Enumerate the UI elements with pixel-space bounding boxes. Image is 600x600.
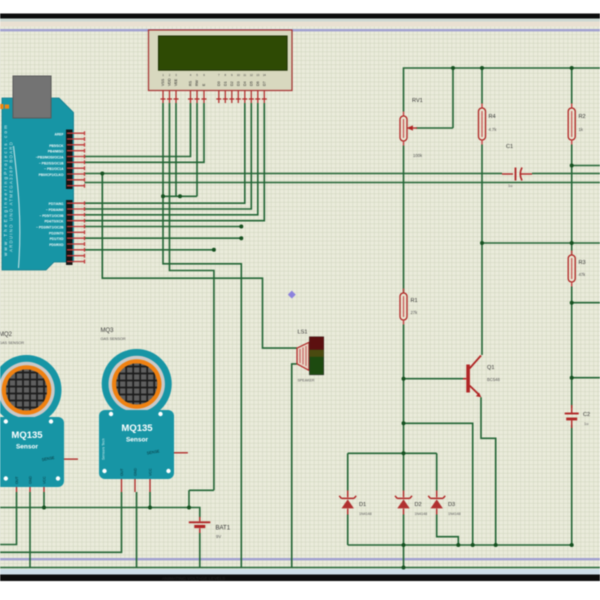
- node y196 b: [178, 194, 182, 198]
- svg-text:D5: D5: [249, 81, 253, 86]
- wire MQ3 VCC: [149, 492, 151, 508]
- svg-text:11: 11: [243, 73, 246, 77]
- svg-text:47k: 47k: [579, 272, 587, 277]
- wire D2 node to bottom rail: [403, 545, 405, 568]
- node R2 stub: [570, 164, 574, 168]
- svg-text:9V: 9V: [216, 534, 221, 539]
- node pd3: [239, 225, 243, 229]
- svg-text:PB4/MISO: PB4/MISO: [48, 150, 64, 154]
- wire VSS trunk: [163, 103, 241, 568]
- node rail RV1: [451, 66, 455, 70]
- node battery rail: [187, 506, 191, 510]
- svg-text:~ PD5/T1/OC0B: ~ PD5/T1/OC0B: [39, 214, 64, 218]
- svg-text:PD4/T0/XCK: PD4/T0/XCK: [44, 220, 64, 224]
- svg-text:Q1: Q1: [487, 365, 494, 371]
- node D2 bottom: [402, 543, 406, 547]
- speaker LS1: [297, 330, 324, 383]
- top black bar: [0, 14, 600, 19]
- node pd1: [212, 248, 216, 252]
- LCD pin numbers: [162, 73, 266, 77]
- svg-text:~PB3/MOSI/OC2A: ~PB3/MOSI/OC2A: [36, 156, 64, 160]
- svg-text:www.TheEngineeringProjects.com: www.TheEngineeringProjects.com: [3, 123, 8, 256]
- node vcc right: [148, 506, 152, 510]
- svg-text:MQ135: MQ135: [121, 423, 153, 434]
- svg-text:VDD: VDD: [168, 78, 172, 86]
- svg-text:D2: D2: [230, 81, 234, 86]
- wire R3 bottom trunk to C2: [571, 287, 573, 409]
- svg-text:GND: GND: [134, 468, 138, 476]
- svg-text:RV1: RV1: [412, 98, 423, 104]
- origin marker diamond: [288, 291, 296, 299]
- svg-text:GND: GND: [29, 476, 33, 484]
- svg-text:R2: R2: [579, 114, 586, 120]
- header pins bottom: [67, 201, 85, 263]
- wire RV1 wiper to rail: [452, 68, 454, 128]
- svg-text:1u: 1u: [508, 183, 512, 188]
- usb connector: [13, 76, 51, 118]
- svg-text:~ PB1/OC1A: ~ PB1/OC1A: [44, 167, 64, 171]
- wire R1 bottom to D2: [403, 325, 405, 491]
- wire R2 bottom trunk: [571, 145, 573, 256]
- wire VEE column: [175, 103, 177, 196]
- wire LCD RS: [85, 103, 191, 157]
- node branch: [402, 421, 406, 425]
- svg-text:VCC: VCC: [149, 468, 153, 476]
- svg-text:Sensors Tech: Sensors Tech: [102, 438, 106, 460]
- node rail emitter: [494, 543, 498, 547]
- wire C2 bottom: [571, 425, 573, 545]
- wire LCD D4: [85, 103, 245, 203]
- header pins top: [67, 131, 85, 188]
- svg-text:PD1/TXD: PD1/TXD: [50, 237, 65, 241]
- svg-text:D1: D1: [359, 502, 366, 508]
- svg-text:AREF: AREF: [55, 132, 64, 136]
- wire PD2: [85, 237, 242, 239]
- wire D3 bottom jog: [437, 515, 459, 546]
- node y196 a: [161, 194, 165, 198]
- diode D3: [428, 491, 460, 517]
- node base: [402, 377, 406, 381]
- wire trunk jog: [189, 490, 214, 507]
- svg-text:14: 14: [263, 73, 267, 77]
- svg-text:PB0/ICP1/CLKO: PB0/ICP1/CLKO: [39, 173, 64, 177]
- node C2 rail: [570, 543, 574, 547]
- pin header block bottom: [66, 200, 73, 265]
- svg-text:D1: D1: [223, 81, 227, 86]
- resistor R3: [568, 251, 586, 287]
- svg-text:D3: D3: [236, 81, 240, 86]
- wire long line 2: [85, 182, 600, 184]
- svg-text:C1: C1: [506, 144, 513, 150]
- svg-text:GAS SENSOR: GAS SENSOR: [0, 341, 24, 345]
- node rail R2: [570, 66, 574, 70]
- svg-text:MQ135: MQ135: [11, 430, 43, 441]
- svg-text:VSS: VSS: [161, 78, 165, 86]
- svg-text:D3: D3: [448, 502, 455, 508]
- wire LCD E: [85, 103, 205, 162]
- bottom black bar: [0, 575, 600, 582]
- node rail R4: [480, 66, 484, 70]
- node C2 top: [570, 376, 574, 380]
- bottom light band: [0, 569, 600, 575]
- wire D3 top: [436, 453, 438, 490]
- svg-text:100k: 100k: [413, 153, 423, 158]
- svg-text:10: 10: [237, 73, 241, 77]
- svg-text:1u: 1u: [584, 421, 588, 426]
- svg-text:PD2/INT0: PD2/INT0: [49, 231, 64, 235]
- svg-text:R1: R1: [411, 298, 418, 304]
- svg-text:~ PD6/AIN0: ~ PD6/AIN0: [46, 208, 64, 212]
- node R2R3: [570, 241, 574, 245]
- svg-text:SPEAKER: SPEAKER: [298, 379, 315, 383]
- wire right stub D: [572, 377, 600, 379]
- wire R4 top: [481, 68, 483, 104]
- wire VDD trunk: [170, 103, 214, 490]
- svg-text:D0: D0: [217, 81, 221, 86]
- gas sensor MQ2: [0, 332, 78, 492]
- wire MQ2 OUT: [0, 492, 17, 545]
- svg-text:OUT: OUT: [15, 476, 19, 484]
- svg-text:RW: RW: [195, 79, 199, 86]
- wire D1 bottom: [347, 515, 349, 546]
- svg-text:RS: RS: [189, 80, 193, 86]
- svg-text:1N4148: 1N4148: [448, 512, 461, 516]
- svg-text:~ PD3/INT1/OC2B: ~ PD3/INT1/OC2B: [36, 226, 64, 230]
- wire sensor rail: [0, 508, 200, 518]
- svg-text:ARDUINO UNO ATMEGA328P BOARD: ARDUINO UNO ATMEGA328P BOARD: [9, 141, 14, 252]
- wire Q1 emitter down: [481, 397, 496, 545]
- svg-text:PD0/RXD: PD0/RXD: [49, 243, 64, 247]
- wire battery bottom: [199, 533, 201, 568]
- svg-text:D2: D2: [415, 502, 422, 508]
- wire D2 bottom: [403, 515, 405, 546]
- board white curve: [14, 146, 20, 268]
- wire PD3: [85, 226, 242, 228]
- wire collector node horizontal: [482, 242, 600, 244]
- svg-text:VEE: VEE: [174, 78, 178, 86]
- wire LCD D7: [85, 103, 265, 221]
- node R3 bottom: [570, 301, 574, 305]
- wire right stub C: [572, 302, 600, 304]
- svg-text:13: 13: [256, 73, 260, 77]
- wire LCD D6: [85, 103, 258, 215]
- svg-text:R3: R3: [579, 260, 586, 266]
- svg-text:Sensor: Sensor: [16, 444, 39, 451]
- svg-text:27k: 27k: [411, 310, 419, 315]
- wire RW column: [196, 103, 198, 196]
- wire MQ3 OUT: [0, 492, 122, 552]
- svg-text:~ PB2/SS/OC1B: ~ PB2/SS/OC1B: [39, 161, 64, 165]
- wire node y196: [163, 195, 197, 197]
- LCD pins: [161, 91, 267, 104]
- svg-text:MQ2: MQ2: [0, 332, 13, 338]
- svg-text:BC548: BC548: [487, 377, 500, 382]
- svg-text:1N4148: 1N4148: [359, 512, 372, 516]
- wire diode top rail: [348, 452, 437, 454]
- resistor R1: [400, 289, 418, 325]
- sheet border line bottom: [0, 558, 600, 560]
- wire RV1 bottom to R1: [403, 146, 405, 294]
- LCD LM016L body: [149, 30, 293, 91]
- node rail D3: [456, 543, 460, 547]
- pin header block top: [66, 130, 73, 190]
- top tint bands: [0, 19, 600, 22]
- transistor Q1: [463, 356, 500, 398]
- wire MQ3 GND: [136, 492, 138, 568]
- wire branch to rail: [404, 423, 473, 545]
- svg-text:Sensor: Sensor: [126, 437, 149, 444]
- wire PD1: [85, 249, 214, 251]
- gas sensor MQ3: [99, 328, 188, 492]
- svg-text:LS1: LS1: [298, 330, 308, 336]
- svg-text:PB5/SCK: PB5/SCK: [49, 144, 64, 148]
- LCD pin labels: [161, 78, 266, 86]
- node rail branch: [471, 543, 475, 547]
- resistor R4: [479, 104, 498, 145]
- wire speaker feed: [102, 174, 297, 349]
- wire top power rail: [404, 68, 600, 112]
- capacitor C1: [502, 144, 532, 188]
- svg-text:4.7k: 4.7k: [489, 127, 498, 132]
- node bottom rail: [402, 566, 406, 570]
- orange led marks: [0, 104, 4, 109]
- wire bottom ground rail: [0, 567, 600, 569]
- wire Q1 base: [404, 378, 464, 380]
- Arduino board U1: [0, 76, 85, 270]
- node vcc left: [42, 506, 46, 510]
- svg-text:D4: D4: [243, 81, 247, 86]
- wire D1 top: [347, 453, 349, 490]
- svg-text:C2: C2: [583, 412, 590, 418]
- diode D1: [339, 491, 371, 517]
- svg-text:1N4148: 1N4148: [415, 512, 428, 516]
- svg-text:R4: R4: [489, 114, 496, 120]
- svg-text:OUT: OUT: [120, 468, 124, 476]
- wire R4 bottom to Q1 collector: [481, 145, 483, 356]
- svg-text:PD7/AIN1: PD7/AIN1: [49, 202, 64, 206]
- svg-text:GAS SENSOR: GAS SENSOR: [101, 337, 126, 341]
- wire LCD D5: [85, 103, 252, 209]
- svg-text:D7: D7: [262, 81, 266, 86]
- wire right stub A: [572, 165, 600, 167]
- wire R2 top: [571, 68, 573, 104]
- svg-text:VCC: VCC: [43, 476, 47, 484]
- pin labels: [36, 132, 64, 247]
- wire MQ2 GND: [29, 492, 31, 568]
- capacitor C2: [565, 405, 590, 428]
- svg-text:MQ3: MQ3: [101, 328, 115, 334]
- wire long line C1 right: [532, 173, 600, 175]
- battery BAT1: [189, 517, 231, 539]
- node speaker tap: [100, 172, 104, 176]
- potentiometer RV1: [400, 98, 453, 158]
- node D2 top: [402, 451, 406, 455]
- wire speaker return: [292, 364, 297, 568]
- resistor R2: [568, 104, 585, 145]
- svg-text:BAT1: BAT1: [216, 526, 231, 532]
- svg-text:D6: D6: [256, 81, 260, 86]
- sheet border line top: [0, 29, 600, 31]
- svg-text:ANIMATING VOLTAGE LEVELS .: ANIMATING VOLTAGE LEVELS . . .: [162, 576, 233, 581]
- node pd2: [239, 236, 243, 240]
- wire diode bottom rail: [348, 544, 572, 546]
- wire long line D13: [85, 173, 503, 175]
- svg-text:12: 12: [250, 73, 254, 77]
- wire MQ2 VCC: [43, 492, 45, 508]
- diode D2: [395, 491, 427, 517]
- node collector line: [480, 241, 484, 245]
